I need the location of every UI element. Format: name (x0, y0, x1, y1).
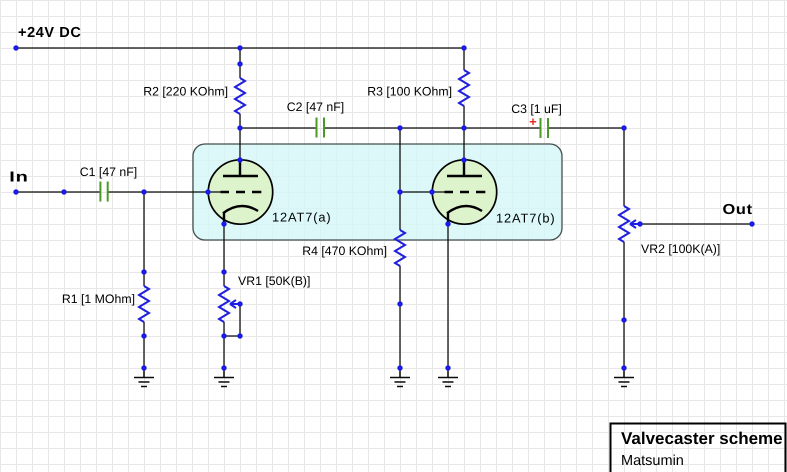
svg-text:12AT7(a): 12AT7(a) (272, 210, 332, 225)
svg-text:Out: Out (723, 202, 753, 218)
svg-text:C2 [47 nF]: C2 [47 nF] (287, 100, 344, 114)
svg-text:Valvecaster scheme: Valvecaster scheme (621, 429, 783, 448)
svg-text:R3 [100 KOhm]: R3 [100 KOhm] (367, 85, 452, 99)
svg-text:+24V DC: +24V DC (18, 25, 81, 41)
svg-text:R1 [1 MOhm]: R1 [1 MOhm] (62, 292, 135, 306)
svg-text:R4 [470 KOhm]: R4 [470 KOhm] (302, 244, 387, 258)
svg-text:R2 [220 KOhm]: R2 [220 KOhm] (143, 85, 228, 99)
svg-text:VR1 [50K(B)]: VR1 [50K(B)] (238, 274, 310, 288)
svg-text:C3 [1 uF]: C3 [1 uF] (511, 102, 562, 116)
svg-text:VR2 [100K(A)]: VR2 [100K(A)] (641, 242, 720, 256)
svg-text:In: In (9, 170, 28, 186)
svg-text:C1 [47 nF]: C1 [47 nF] (80, 165, 137, 179)
svg-text:Matsumin: Matsumin (621, 453, 684, 469)
svg-text:12AT7(b): 12AT7(b) (496, 211, 556, 226)
